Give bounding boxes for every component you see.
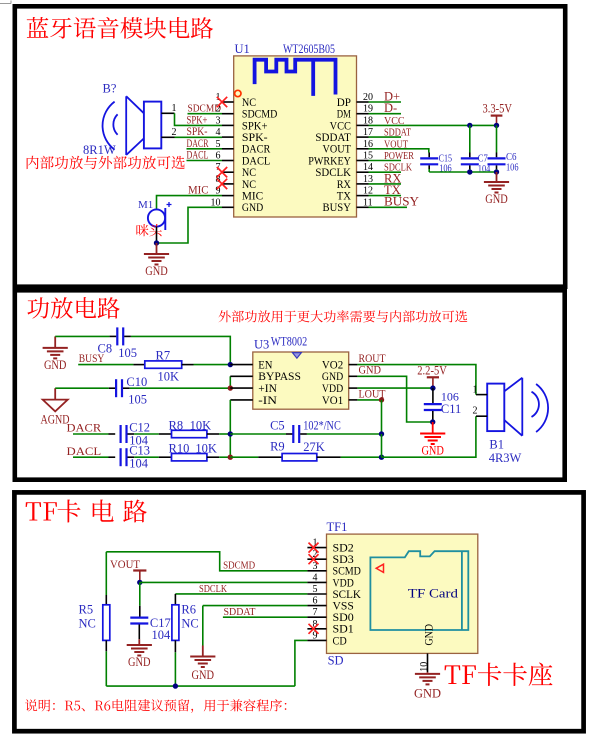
U1 pin 19 stub <box>357 113 369 115</box>
U1 pin 3 stub <box>222 124 234 126</box>
svg-text:DACL: DACL <box>67 444 102 458</box>
svg-text:-IN: -IN <box>258 395 277 407</box>
wire VOUT top to SCMD <box>106 552 307 571</box>
U1 pin 13 stub <box>357 183 369 185</box>
capacitor C10 <box>116 379 122 397</box>
net label TX <box>384 183 401 197</box>
capacitor C11 <box>424 388 442 422</box>
wire net TX <box>369 195 402 197</box>
junction rail C6 <box>494 169 499 174</box>
svg-text:NC: NC <box>242 179 256 191</box>
junction rail C7 <box>467 169 472 174</box>
label C11 <box>441 402 461 416</box>
U1 pin 13 number <box>363 174 373 185</box>
U1 pin 1 number <box>216 92 221 103</box>
U1 pin 4 number <box>216 127 221 138</box>
svg-text:SDDAT: SDDAT <box>384 128 411 139</box>
svg-text:WT8002: WT8002 <box>271 333 307 348</box>
net label SDCMD box3 <box>223 560 255 571</box>
value 106 C11 <box>441 390 459 404</box>
B1 pin number 2 <box>473 406 478 417</box>
speaker pin number 2 <box>172 127 177 138</box>
svg-text:10K: 10K <box>195 442 217 456</box>
capacitor C7 leads <box>461 125 479 172</box>
label C10 <box>126 375 147 389</box>
U1 pin 5 stub <box>222 148 234 150</box>
svg-text:GND: GND <box>44 358 67 372</box>
svg-text:U3: U3 <box>254 338 269 352</box>
IC U3 body <box>253 352 349 409</box>
value 106 C15 <box>439 163 452 174</box>
U1 pin 3 name SPK+ <box>242 120 268 132</box>
U3 +IN stub <box>230 387 253 389</box>
ground GND below C11 <box>420 422 445 458</box>
svg-text:DP: DP <box>337 97 351 109</box>
junction +IN node <box>228 385 233 390</box>
U1 pin 4 stub <box>222 136 234 138</box>
speaker pin 1 stub <box>161 112 174 114</box>
speaker B1 pin1 stub <box>476 394 487 396</box>
designator TF1 <box>327 520 348 534</box>
svg-text:8R1W: 8R1W <box>83 143 116 157</box>
svg-text:SDCLK: SDCLK <box>199 584 228 595</box>
svg-text:PWRKEY: PWRKEY <box>308 155 351 167</box>
wire net BUSY <box>369 206 408 208</box>
speaker B? body <box>144 102 161 149</box>
net label SDCLK box3 <box>199 584 228 595</box>
TF1 pin 8 name SD1 <box>333 624 355 636</box>
net label D- <box>384 101 397 115</box>
TF1 pin 6 name VSS <box>333 601 354 613</box>
U1 pin 9 stub <box>222 195 234 197</box>
junction VCC C6 <box>494 123 499 128</box>
svg-text:TF Card: TF Card <box>408 586 459 600</box>
svg-text:SPK+: SPK+ <box>187 114 208 126</box>
TF1 pin 7 number <box>313 607 318 618</box>
TF1 pin 8 number <box>313 619 318 630</box>
svg-text:4: 4 <box>313 572 318 583</box>
svg-text:VO2: VO2 <box>322 360 344 372</box>
svg-text:SDCMD: SDCMD <box>223 560 255 571</box>
wire LOUT node <box>357 399 381 401</box>
svg-text:SDDAT: SDDAT <box>315 132 351 144</box>
junction C11 ground <box>430 419 435 424</box>
TF1 pin 1 number <box>313 538 318 549</box>
net label SDDAT box3 <box>224 607 256 618</box>
svg-text:SPK-: SPK- <box>187 126 208 138</box>
speaker B1 arcs <box>532 384 549 432</box>
svg-text:SD0: SD0 <box>333 612 355 624</box>
wire C8 to EN node <box>124 336 230 364</box>
speaker B? arcs <box>103 102 118 150</box>
U1 pin 17 stub <box>357 136 369 138</box>
wire net DACR U1 pin5 <box>187 148 223 150</box>
value 105 C10 <box>128 393 147 407</box>
U1 pin 20 number <box>363 92 373 103</box>
svg-text:7: 7 <box>313 607 318 618</box>
svg-text:M1: M1 <box>138 199 153 211</box>
U1 pin 18 name VCC <box>330 120 351 132</box>
svg-text:GND: GND <box>192 668 215 682</box>
net label BUSY right <box>384 193 420 208</box>
ground GND below mic <box>144 243 169 278</box>
U1 pin 12 name TX <box>337 191 352 203</box>
label C6 <box>506 152 517 163</box>
wire net RX <box>369 183 402 185</box>
U1 pin 1 stub <box>222 101 234 103</box>
TF1 pin 2 name SD3 <box>333 554 355 566</box>
label NC R6 <box>181 617 198 631</box>
label C15 <box>439 153 453 164</box>
R5 bottom lead <box>105 640 107 686</box>
U3 right stub <box>349 375 358 377</box>
value 10K R7 <box>158 369 180 383</box>
svg-text:B?: B? <box>103 82 117 96</box>
net label SPK+ <box>187 114 208 126</box>
value 4R3W <box>489 451 522 465</box>
svg-text:2: 2 <box>172 127 177 138</box>
wire net SDCLK <box>369 171 402 173</box>
svg-text:TF1: TF1 <box>327 520 348 534</box>
no-connect X TF1 pin2 <box>309 554 319 564</box>
U1 pin 12 number <box>363 186 373 197</box>
svg-text:SCMD: SCMD <box>333 566 361 578</box>
microphone M1 <box>148 202 172 230</box>
capacitor C17 <box>130 618 148 624</box>
net label BUSY wire <box>78 364 133 366</box>
svg-text:10: 10 <box>211 197 221 208</box>
wire R9 to B1 pin2 <box>382 416 476 457</box>
speaker B1 body <box>487 384 504 432</box>
svg-text:SD1: SD1 <box>333 624 355 636</box>
svg-text:R9: R9 <box>270 440 285 454</box>
TF1 pin 4 number <box>313 572 318 583</box>
svg-text:DACR: DACR <box>187 138 209 150</box>
U1 pin 14 name SDCLK <box>315 167 351 179</box>
label R6 <box>181 603 196 617</box>
U1 pin 13 name RX <box>337 179 352 191</box>
svg-text:2.2-5V: 2.2-5V <box>417 364 447 378</box>
wire VDD to power <box>357 387 433 389</box>
TF1 pin 8 stub <box>307 628 326 630</box>
svg-text:VCC: VCC <box>384 116 405 127</box>
svg-text:6: 6 <box>216 151 221 162</box>
svg-text:U1: U1 <box>235 42 250 56</box>
wire GND to C8 <box>55 335 116 337</box>
svg-text:GND: GND <box>421 444 444 458</box>
svg-text:MIC: MIC <box>242 191 263 203</box>
svg-text:SD2: SD2 <box>333 543 355 555</box>
TF1 pin 9 number <box>313 630 318 641</box>
TF1 pin 6 number <box>313 596 318 607</box>
net label DACL <box>187 150 209 162</box>
value 10K R10 <box>195 442 217 456</box>
svg-text:GND: GND <box>128 655 151 669</box>
label R7 <box>156 348 171 362</box>
TF1 pin 3 stub <box>307 570 326 572</box>
TF1 pin 6 stub <box>307 605 326 607</box>
svg-text:SDDAT: SDDAT <box>224 607 256 618</box>
U3 pin name VDD <box>322 383 343 395</box>
svg-text:WT2605B05: WT2605B05 <box>283 41 335 56</box>
svg-text:SPK+: SPK+ <box>242 120 268 132</box>
svg-text:C6: C6 <box>506 152 517 163</box>
junction DACR node <box>228 431 233 436</box>
net label MIC <box>188 183 209 197</box>
resistor R10 <box>159 454 231 461</box>
no-connect X on U1 pin 1 <box>217 97 227 107</box>
value 10K R8 <box>190 419 212 433</box>
net label LOUT <box>359 386 387 400</box>
svg-text:GND: GND <box>145 264 168 278</box>
speaker B1 horn <box>504 378 522 436</box>
note 内部功放与外部功放可选 <box>27 156 185 169</box>
net label BUSY <box>79 351 105 365</box>
wire net SDDAT <box>369 136 402 138</box>
net label DACR <box>187 138 209 150</box>
wire DACR <box>73 433 115 435</box>
U1 pin 11 name BUSY <box>323 202 351 214</box>
svg-text:C5: C5 <box>270 418 285 432</box>
U1 pin 1 name NC <box>242 97 256 109</box>
section border box 2 (amplifier) <box>15 290 565 479</box>
designator U1 <box>235 42 250 56</box>
ground GND top-left <box>43 336 68 372</box>
wire C10 to +IN <box>123 387 230 389</box>
no-connect X TF1 pin1 <box>309 543 319 553</box>
no-connect X on U1 pin 7 <box>217 167 227 177</box>
U1 pin 6 number <box>216 151 221 162</box>
wire -IN down <box>229 400 231 457</box>
svg-text:1: 1 <box>172 103 177 114</box>
resistor R9 <box>258 454 381 461</box>
svg-text:GND: GND <box>485 192 508 206</box>
wire SDCLK row box3 <box>175 593 307 595</box>
U1 pin 10 number <box>211 197 221 208</box>
TF1 pin 10 number <box>419 662 430 672</box>
svg-text:AGND: AGND <box>41 412 70 427</box>
part number WT2605B05 <box>283 41 335 56</box>
part number WT8002 <box>271 333 307 348</box>
svg-text:GND: GND <box>422 624 436 646</box>
TF1 pin 1 stub <box>307 547 326 549</box>
svg-text:CD: CD <box>333 635 347 647</box>
TF1 pin 9 name CD <box>333 635 347 647</box>
junction VOUT node <box>137 580 142 585</box>
resistor R5 <box>103 605 110 641</box>
power port VOUT <box>110 559 146 582</box>
resistor R7 <box>133 361 230 368</box>
U1 pin 5 name DACR <box>242 144 271 156</box>
U1 pin 8 number <box>216 174 221 185</box>
wire U1 pin10 GND to mic <box>157 207 223 243</box>
wire C5 to R9 node <box>381 434 383 457</box>
svg-text:6: 6 <box>313 596 318 607</box>
IC U1 body <box>234 56 357 217</box>
svg-text:104: 104 <box>129 457 149 471</box>
U3 right stub <box>349 364 358 366</box>
junction R9 node <box>379 455 384 460</box>
wire LOUT down <box>381 400 383 434</box>
U1 pin 8 name NC <box>242 179 256 191</box>
section border box 3 (TF card) <box>14 492 583 731</box>
svg-text:10: 10 <box>419 662 430 672</box>
note 外部功放用于更大功率需要与内部功放可选 <box>219 310 468 322</box>
U3 -IN stub <box>230 399 253 401</box>
wire DACR to C5 <box>230 433 292 435</box>
wire VSS down to GND <box>202 606 204 646</box>
TF1 pin 4 name VDD <box>333 577 354 589</box>
TF1 pin 5 number <box>313 584 318 595</box>
svg-text:SD3: SD3 <box>333 554 355 566</box>
U1 pin 17 name SDDAT <box>315 132 351 144</box>
U1 pin 16 stub <box>357 148 369 150</box>
svg-text:105: 105 <box>118 346 137 360</box>
label B? <box>103 82 117 96</box>
wire VOUT to C15 <box>369 149 429 153</box>
U1 pin 12 stub <box>357 195 369 197</box>
no-connect X TF1 pin8 <box>309 624 319 634</box>
junction DACL node <box>228 455 233 460</box>
TF card GND pin text <box>422 624 436 646</box>
U3 pin name -IN <box>258 395 277 407</box>
label SD <box>328 654 344 668</box>
net label GND wire <box>359 363 382 377</box>
TF1 pin 5 name SCLK <box>333 589 362 601</box>
svg-text:R6: R6 <box>181 603 196 617</box>
U1 pin 19 name DM <box>337 109 351 121</box>
U1 pin 2 name SDCMD <box>242 109 278 121</box>
ground AGND <box>41 388 70 426</box>
power port 3.3-5V <box>483 102 513 126</box>
svg-text:NC: NC <box>242 97 256 109</box>
svg-text:2: 2 <box>473 406 478 417</box>
svg-text:10K: 10K <box>158 369 180 383</box>
U3 notch <box>292 353 301 359</box>
svg-text:MIC: MIC <box>188 183 209 197</box>
wire SPK- speaker to U1 pin4 <box>175 136 223 138</box>
wire VSS row box3 <box>203 605 308 607</box>
svg-text:VOUT: VOUT <box>384 139 408 150</box>
wire AGND to C10 <box>55 387 115 389</box>
net label DACL box2 <box>67 444 102 458</box>
net label SPK- <box>187 126 208 138</box>
net label VOUT right <box>384 139 408 150</box>
svg-text:4R3W: 4R3W <box>489 451 522 465</box>
U1 pin 18 number <box>363 115 373 126</box>
U1 pin 6 name DACL <box>242 155 270 167</box>
U1 pin 19 number <box>363 104 373 115</box>
U1 pin 16 name VOUT <box>323 144 351 156</box>
label C12 <box>129 421 150 435</box>
wire U3 GND down <box>357 376 432 422</box>
svg-text:R7: R7 <box>156 348 171 362</box>
title 功放电路 <box>27 297 119 319</box>
junction LOUT <box>379 397 384 402</box>
B1 pin number 1 <box>473 385 478 396</box>
svg-text:4: 4 <box>216 127 221 138</box>
value 27K R9 <box>303 440 325 454</box>
wire CD to bottom rail <box>295 640 308 686</box>
TF Card text <box>408 586 459 600</box>
svg-text:C13: C13 <box>129 444 150 458</box>
svg-text:POWER: POWER <box>384 151 414 162</box>
title TF卡电路 <box>26 499 147 522</box>
svg-text:3.3-5V: 3.3-5V <box>483 102 513 116</box>
U1 pin1 indicator circle <box>235 90 241 96</box>
wire ROUT to B1 pin1 <box>357 365 476 395</box>
capacitor C5 <box>293 425 299 443</box>
U3 BYPASS stub <box>230 375 253 377</box>
ground GND below C17 <box>127 639 152 669</box>
C17 bottom lead <box>138 625 140 640</box>
resistor R8 <box>159 430 231 437</box>
svg-text:BUSY: BUSY <box>323 202 351 214</box>
svg-text:102*/NC: 102*/NC <box>303 418 341 432</box>
wire MIC mic to U1 pin9 <box>157 196 223 210</box>
wire VDD row box3 <box>140 581 308 583</box>
svg-text:C7: C7 <box>478 153 488 164</box>
wire bottom rail box3 <box>106 685 295 687</box>
wire DACL to R9 <box>230 456 258 458</box>
svg-text:NC: NC <box>79 617 96 631</box>
U3 pin name BYPASS <box>258 371 301 383</box>
svg-text:D-: D- <box>384 101 397 115</box>
TF1 pin 7 name SD0 <box>333 612 355 624</box>
TF1 pin 2 stub <box>307 558 326 560</box>
designator U3 <box>254 338 269 352</box>
svg-text:EN: EN <box>258 360 272 372</box>
svg-text:VCC: VCC <box>330 120 351 132</box>
speaker B1 pin2 stub <box>476 415 487 417</box>
ground GND below TF1 pin10 <box>414 672 441 700</box>
R6 top lead <box>174 594 176 605</box>
U1 pin 3 number <box>216 115 221 126</box>
capacitor C15 <box>420 153 438 173</box>
U1 pin 8 stub <box>222 183 234 185</box>
U3 pin name VO1 <box>322 395 344 407</box>
svg-text:R5: R5 <box>79 603 94 617</box>
wire C12 to R8 <box>128 433 159 435</box>
net label SDCLK right <box>384 163 413 174</box>
wire SDDAT row box3 <box>223 616 308 618</box>
svg-text:VO1: VO1 <box>322 395 344 407</box>
resistor R6 <box>172 605 179 641</box>
svg-text:SDCMD: SDCMD <box>242 109 278 121</box>
svg-text:NC: NC <box>181 617 198 631</box>
U1 pin 14 number <box>363 162 373 173</box>
IC TF1 body <box>327 534 478 653</box>
svg-text:DACR: DACR <box>242 144 271 156</box>
capacitor C6 leads <box>488 125 506 172</box>
U3 EN stub <box>230 364 253 366</box>
svg-text:VDD: VDD <box>333 577 354 589</box>
TF1 pin 10 stub <box>427 653 429 672</box>
no-connect X on U1 pin 8 <box>217 179 227 189</box>
label 8R1W <box>83 143 116 157</box>
svg-text:GND: GND <box>414 687 441 701</box>
U1 pin 7 name NC <box>242 167 256 179</box>
U1 pin 7 stub <box>222 171 234 173</box>
svg-text:+IN: +IN <box>258 383 277 395</box>
power port 2.2-5V <box>417 364 447 388</box>
TF1 pin1 marker triangle <box>376 564 383 572</box>
svg-text:NC: NC <box>242 167 256 179</box>
wire ground rail <box>429 171 496 173</box>
U1 pin 11 number <box>363 197 373 208</box>
wire C5 right <box>300 433 381 435</box>
svg-text:SCLK: SCLK <box>333 589 362 601</box>
